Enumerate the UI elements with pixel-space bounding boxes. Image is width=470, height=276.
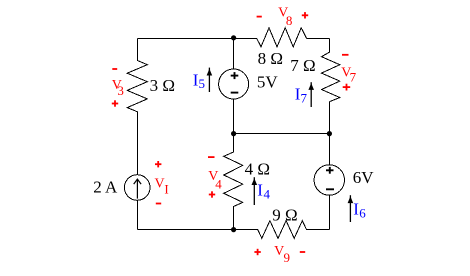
svg-text:9 Ω: 9 Ω (272, 205, 297, 224)
svg-text:2 A: 2 A (93, 178, 118, 197)
svg-text:5V: 5V (257, 72, 279, 91)
svg-text:7 Ω: 7 Ω (290, 56, 315, 75)
svg-text:8 Ω: 8 Ω (258, 49, 283, 68)
svg-text:4 Ω: 4 Ω (245, 160, 270, 179)
svg-text:6V: 6V (353, 168, 375, 187)
svg-text:3 Ω: 3 Ω (150, 76, 175, 95)
